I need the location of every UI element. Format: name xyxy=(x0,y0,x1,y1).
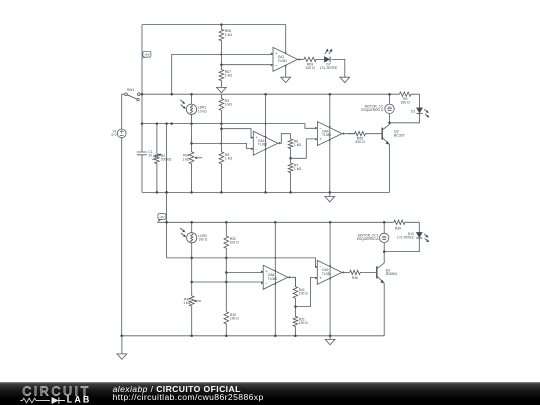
wire switch to rail xyxy=(140,93,142,95)
svg-text:LAB: LAB xyxy=(67,395,92,405)
photoresistor LDR2 xyxy=(187,233,197,243)
CircuitLab logo xyxy=(0,382,110,405)
motor MOTOR_CC1 ESQUERDO A xyxy=(380,233,389,242)
wire LDR1 top xyxy=(191,94,193,104)
ground OA2 xyxy=(281,77,291,82)
wire bus A xyxy=(142,124,317,129)
op-amp OA4 xyxy=(317,122,342,146)
wire R06 to R07 segment xyxy=(220,54,222,64)
svg-text:+: + xyxy=(320,137,323,142)
crossing arrow on inverting feed xyxy=(221,142,223,145)
LED D10 emission arrows xyxy=(424,234,427,237)
junction dot collector node xyxy=(388,122,391,125)
footer bar xyxy=(0,382,540,405)
junction dot LDR1 tap xyxy=(190,142,193,145)
LDR2 light arrows xyxy=(180,228,184,231)
potentiometer R40 xyxy=(189,296,194,336)
resistor R7 xyxy=(288,158,293,192)
svg-text:R09100 Ω: R09100 Ω xyxy=(305,62,315,70)
op-amp OA9 xyxy=(317,260,342,284)
wire rail B corner to LED D10 xyxy=(418,222,420,232)
op-amp OA2 xyxy=(273,47,298,71)
resistor R09 xyxy=(304,57,325,61)
wire left column top xyxy=(141,25,143,152)
svg-text:+6V: +6V xyxy=(159,215,166,219)
wire top rail +V to op-amp OA2 V+ xyxy=(142,25,286,54)
svg-text:Q2BC337: Q2BC337 xyxy=(394,130,405,138)
wire ground bus A xyxy=(142,191,390,193)
svg-text:OA2TL081: OA2TL081 xyxy=(278,55,288,63)
resistor R39 xyxy=(394,220,419,224)
wire R6/R7 junction to OA4 non-inverting xyxy=(291,139,318,158)
wire Q2 collector xyxy=(389,123,391,125)
wire ground bus B xyxy=(122,335,385,337)
LED D1 emission arrows xyxy=(424,109,427,112)
junction dots rail B xyxy=(165,191,385,223)
wire D1 cathode to motor bottom xyxy=(390,114,420,123)
wire motor2 top xyxy=(383,222,385,233)
wire Q4 emitter to bottom bus xyxy=(383,283,385,336)
wire OA4 supply xyxy=(329,94,331,192)
voltage source V1 wire to switch xyxy=(122,94,125,129)
wire motor top to rail xyxy=(389,94,391,104)
motor MOTOR_CC ESQUERDO D xyxy=(385,104,394,113)
junction R06-R07 wire crossing arrow xyxy=(221,53,223,56)
resistor R41 xyxy=(293,277,298,306)
svg-text:LDR2100 Ω: LDR2100 Ω xyxy=(198,234,207,242)
LED D7 xyxy=(324,57,329,63)
junction dot R41/R31 xyxy=(294,305,297,308)
ground below R07 xyxy=(217,82,227,93)
wire OA8 supply xyxy=(274,222,276,335)
wire middle column xyxy=(166,124,168,258)
wire R3/R8 tap to OA11 non-inverting xyxy=(221,129,253,138)
wire D7 cathode to ground xyxy=(331,59,345,77)
svg-text:OA8TL081: OA8TL081 xyxy=(268,273,278,281)
wire LDR2 bottom xyxy=(191,243,193,258)
flag +6V lower xyxy=(157,219,161,222)
svg-text:R401 kΩ: R401 kΩ xyxy=(183,297,190,305)
wire Q2 emitter to ground bus xyxy=(389,144,391,192)
wire OA11 output to R6 xyxy=(278,134,291,144)
svg-text:D10LTL-907EE: D10LTL-907EE xyxy=(397,232,414,240)
svg-text:R061 kΩ: R061 kΩ xyxy=(225,29,233,37)
svg-text:+6V: +6V xyxy=(144,53,151,57)
junction dot R07 inverting tap xyxy=(220,63,223,66)
junction dot R30 tap xyxy=(225,271,228,274)
wire motor2 bottom xyxy=(383,243,385,252)
resistor R9 xyxy=(400,92,420,96)
svg-text:V16 V: V16 V xyxy=(112,129,118,137)
wire OA11 supply V+ to V- xyxy=(265,94,267,192)
wire OA9 supply xyxy=(329,222,331,335)
svg-text:R61 kΩ: R61 kΩ xyxy=(294,140,302,148)
wire node A to OA2 non-inverting input xyxy=(172,54,273,94)
svg-text:D1: D1 xyxy=(411,109,415,113)
svg-text:SW1: SW1 xyxy=(127,88,134,92)
junction dot R8 tap xyxy=(220,127,223,130)
wire OA2 V- to ground xyxy=(285,66,287,77)
wire OA8 output to R41 xyxy=(288,277,296,286)
wire LDR2 column to R40 xyxy=(191,258,193,296)
wire LDR2 top xyxy=(191,222,193,232)
rheostat R2 xyxy=(155,124,160,193)
wire LDR2 tap to OA8 inverting xyxy=(192,281,264,283)
junction dot R06 top xyxy=(220,23,223,26)
svg-text:R71 kΩ: R71 kΩ xyxy=(294,164,302,172)
svg-text:R30100 Ω: R30100 Ω xyxy=(230,313,239,321)
wire rail corner to LED D1 xyxy=(419,94,421,108)
ground OA9 supply xyxy=(325,336,335,345)
junction dots OA8 inverting feed xyxy=(190,281,227,284)
resistor R8 xyxy=(219,124,224,193)
resistor R30 xyxy=(224,312,229,336)
svg-text:MOTOR_CCESQUERDO D: MOTOR_CCESQUERDO D xyxy=(361,105,384,113)
ground OA4 supply xyxy=(325,192,335,202)
LED D1 xyxy=(417,108,423,113)
resistor R31 xyxy=(293,307,298,336)
wire OA9 output to R38 xyxy=(342,271,350,273)
svg-text:Q42N3904: Q42N3904 xyxy=(386,268,398,276)
wire R30 tap to OA8 non-inverting xyxy=(226,272,263,274)
LED D7 emission arrows xyxy=(325,51,328,54)
wire OA4 output to R05 xyxy=(342,133,355,135)
wire Q4 collector xyxy=(383,252,385,264)
rheostat R2 arrow xyxy=(152,155,160,160)
wire C1 bottom to ground bus xyxy=(141,155,143,193)
junction dot R6/R7 xyxy=(289,157,292,160)
svg-text:R31 kΩ: R31 kΩ xyxy=(225,99,233,107)
svg-text:−: − xyxy=(275,63,278,68)
wire LDR1 tap to OA11 inverting xyxy=(192,143,254,148)
wire V1 negative down to bottom bus xyxy=(121,138,123,336)
svg-text:R05330 Ω: R05330 Ω xyxy=(355,137,365,145)
svg-text:−: − xyxy=(255,146,258,151)
credit text xyxy=(113,385,264,401)
svg-text:R41100 Ω: R41100 Ω xyxy=(299,288,308,296)
svg-text:R071 kΩ: R071 kΩ xyxy=(225,70,233,78)
wire OA2 output xyxy=(298,58,304,60)
svg-text:MOTOR_CC1ESQUERDO A: MOTOR_CC1ESQUERDO A xyxy=(357,234,380,242)
wire LDR1 bottom xyxy=(191,115,193,124)
photoresistor LDR1 xyxy=(186,104,196,114)
svg-text:R041 kΩ: R041 kΩ xyxy=(182,154,190,162)
svg-text:+: + xyxy=(319,276,322,281)
svg-text:R9330 Ω: R9330 Ω xyxy=(400,97,410,105)
bus A crossing arrow at OA11 supply xyxy=(264,123,266,125)
svg-text:R32100 Ω: R32100 Ω xyxy=(230,237,239,245)
wire R32 column to R30 xyxy=(225,258,227,312)
op-amp OA11 xyxy=(253,131,278,155)
resistor R6 xyxy=(288,134,293,159)
potentiometer R04 wiper xyxy=(196,157,203,159)
svg-text:R38: R38 xyxy=(352,276,358,280)
junction dots bus A xyxy=(141,122,223,125)
junction dots ground bus B xyxy=(120,335,331,338)
transistor Q2 xyxy=(381,128,383,140)
resistor R38 xyxy=(350,270,377,274)
LDR1 light arrows xyxy=(180,100,184,103)
switch SW1 xyxy=(125,93,140,101)
svg-text:LDR110 kΩ: LDR110 kΩ xyxy=(198,106,207,114)
svg-text:R81 kΩ: R81 kΩ xyxy=(225,153,233,161)
transistor Q4 xyxy=(376,266,378,278)
resistor R06 xyxy=(219,25,224,55)
svg-text:R39: R39 xyxy=(395,227,401,231)
resistor R07 xyxy=(219,65,224,82)
ground D7 return xyxy=(340,77,350,82)
svg-text:−: − xyxy=(265,280,268,285)
crossing arrow OA8 supply at bus B xyxy=(274,257,276,259)
wire R41/R31 junction to OA9 non-inverting xyxy=(295,278,317,307)
svg-text:D7LTL-907EE: D7LTL-907EE xyxy=(320,62,338,70)
wire bus B to OA9 inverting xyxy=(167,258,318,267)
flag +6V upper xyxy=(142,57,146,59)
voltage source V1 xyxy=(117,129,126,138)
junction dot motor2 bottom xyxy=(383,250,386,253)
wire D10 cathode to motor2 bottom xyxy=(384,239,419,252)
resistor R32 xyxy=(224,222,229,258)
potentiometer R40 wiper xyxy=(195,300,201,302)
wire R06/R07 tap to OA2 inverting input xyxy=(221,64,273,66)
junction dots rail A xyxy=(141,93,391,96)
junction dots bus B xyxy=(190,257,227,260)
capacitor C1 xyxy=(137,152,147,155)
resistor R05 xyxy=(348,132,382,136)
ground V1 bottom xyxy=(117,336,127,360)
potentiometer R04 xyxy=(189,124,194,193)
resistor R3 xyxy=(219,94,224,123)
wire motor bottom to collector node xyxy=(389,114,391,123)
wire +6V rail B xyxy=(157,221,394,223)
op-amp OA8 xyxy=(263,265,288,289)
junction dots ground bus A xyxy=(156,191,331,194)
LED D10 xyxy=(416,232,422,237)
svg-text:R31100 Ω: R31100 Ω xyxy=(299,317,308,325)
wire +6V rail A xyxy=(140,93,399,95)
